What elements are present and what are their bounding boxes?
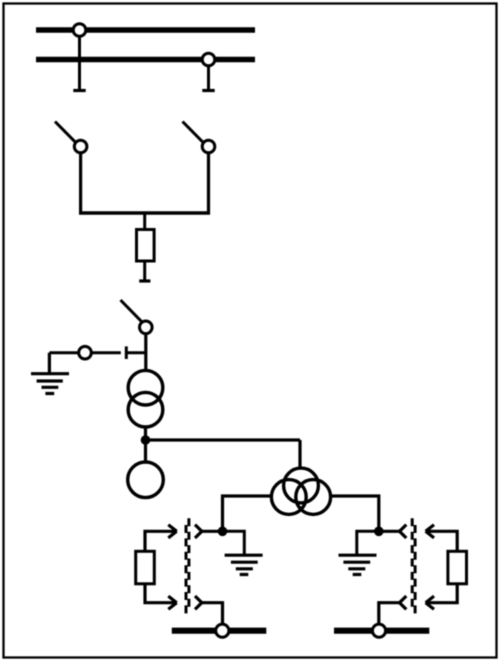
female contact (fork) right bottom (379, 596, 407, 628)
wire DS2 down to tie (207, 153, 210, 215)
wire junction to T2 branch (horizontal) (146, 438, 301, 441)
ground (earthing switch ES1) (31, 353, 69, 394)
junction node right cubicle (374, 527, 384, 537)
ground (left neutral) (225, 555, 263, 574)
terminal tick below R1 (139, 279, 150, 282)
wire DS1 down to tie (79, 153, 82, 215)
tie wire joining DS1 and DS2 (79, 211, 210, 215)
earthing switch ES1 moving arm (91, 351, 121, 354)
busbar BB2 (36, 57, 255, 63)
disconnector DS1 blade (55, 122, 77, 144)
wire DS3 to transformer T1 (144, 334, 147, 371)
busbar BB4 (bottom right) (334, 628, 429, 634)
wire from BB2 tap down (207, 64, 210, 90)
node circle on BB3 (216, 624, 229, 637)
female contact (fork) left top (195, 525, 223, 538)
resistor R2 (left) (136, 551, 155, 584)
node circle on BB4 (372, 624, 385, 637)
disconnector DS3 blade (121, 300, 142, 322)
resistor R1 (137, 230, 155, 262)
wire contact bar to T1 stem (126, 351, 144, 354)
disconnector DS2 blade (183, 122, 205, 144)
transformer T2 winding 3 (right) (296, 480, 331, 515)
disconnector DS1 hinge circle (74, 140, 87, 153)
withdrawable boundary dashed line (left) (186, 518, 189, 613)
wire T1 to generator G (144, 427, 147, 462)
terminal tick under BB2 tap (202, 89, 214, 92)
busbar BB3 (bottom left) (172, 628, 266, 634)
transformer T2 winding 1 (top) (284, 468, 319, 503)
transformer T1 primary winding (128, 370, 163, 405)
generator G circle (128, 462, 164, 498)
female contact (fork) right top (379, 525, 407, 538)
transformer T2 winding 2 (left) (271, 480, 306, 515)
earthing switch ES1 fixed contact bar (125, 346, 128, 359)
withdrawable boundary dashed line (right) (412, 518, 415, 613)
female contact (fork) left bottom (195, 596, 223, 628)
wire from BB1 tap down across BB2 (78, 34, 81, 90)
male contact (arrow) left bottom (145, 584, 177, 610)
wire below R1 (143, 261, 146, 280)
busbar BB1 (top) (36, 27, 255, 33)
wire junction to left neutral ground (223, 531, 245, 555)
junction node under T1 (141, 435, 151, 445)
node circle on busbar BB2 (202, 53, 215, 66)
wire tie to resistor R1 (143, 213, 146, 230)
wire ground to ES1 circle (49, 351, 78, 354)
ground (right neutral) (339, 555, 377, 574)
disconnector DS2 hinge circle (202, 140, 215, 153)
male contact (arrow) left top (145, 525, 177, 552)
node circle on busbar BB1 (73, 24, 86, 37)
junction node left cubicle (218, 527, 228, 537)
wire T2 to left cubicle (223, 496, 273, 531)
terminal tick under BB1 tap (73, 89, 85, 92)
earthing switch ES1 hinge circle (79, 346, 92, 359)
disconnector DS3 hinge circle (140, 321, 153, 334)
wire down to transformer T2 (298, 440, 301, 468)
male contact (arrow) right top (426, 525, 458, 552)
resistor R3 (right) (448, 551, 467, 584)
wire T2 to right cubicle (330, 496, 379, 531)
transformer T1 secondary winding (128, 392, 163, 427)
wire junction to right neutral ground (357, 531, 379, 555)
male contact (arrow) right bottom (426, 584, 458, 610)
